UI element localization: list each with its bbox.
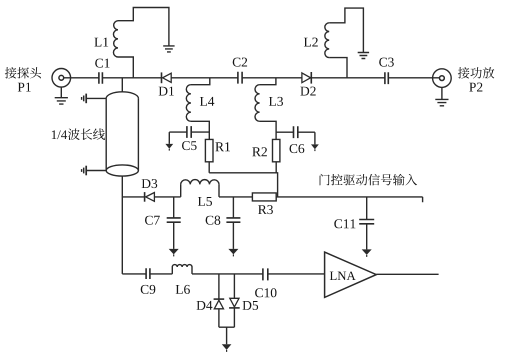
capacitor C6 [294,126,298,138]
label R2 [252,147,267,156]
op-amp LNA [325,252,377,297]
wire L5 to R3 [219,196,252,198]
ground (C6) [311,144,319,151]
wire stub to bottom rail [121,176,123,274]
label R3 [258,205,273,214]
label C5 [182,141,197,150]
label D5 [243,301,259,310]
ground (L2) [358,53,369,59]
diode D2 [302,72,311,84]
capacitor C5 [187,126,191,138]
wire C5 to ground [169,132,187,144]
resistor R2 [273,139,280,161]
ground (stub bottom) [82,166,107,176]
ground (D4 D5) [222,344,232,352]
wire bus R1-R2-gate [209,173,277,197]
label D1 [159,87,174,96]
quarter-wave line (coax stub) [106,92,138,176]
diode D5 [229,274,240,327]
wire stub node to D3 [122,196,144,198]
label L2 [304,38,318,47]
label C6 [290,144,305,153]
label 门控驱动信号输入 [320,174,418,186]
wire gate line [276,197,422,202]
wire R2 to bus [275,162,277,173]
label C2 [233,58,247,67]
wire C9 to L6 [150,273,172,275]
diode D4 [214,274,225,327]
label D2 [300,87,315,96]
label D4 [197,301,213,310]
label 1/4波长线 [52,128,105,140]
ground (C5) [165,144,173,151]
wire D3 to L5 [154,196,180,198]
label L4 [200,97,214,106]
label C10 [255,288,276,297]
ground (L1) [163,46,174,52]
ground (stub top) [82,94,107,104]
label L6 [176,285,190,294]
diode D1 [162,72,172,83]
label P1 [18,83,31,92]
capacitor C3 [385,72,388,84]
label 接功放 [458,67,495,79]
capacitor C1 [99,72,103,84]
wire L3 node to C6 [276,131,293,133]
wire C10 to LNA [268,273,325,275]
wire C2 to D2 [242,77,302,79]
inductor L4 [186,78,209,140]
label C11 [334,219,355,228]
label R1 [215,142,230,151]
wire C6 to ground [298,132,315,144]
capacitor C8 [226,197,240,249]
wire R1 to bus [208,162,210,173]
label P2 [469,83,482,92]
label L3 [269,97,283,106]
label C9 [141,285,156,294]
label D3 [142,179,158,188]
resistor R3 [252,193,276,201]
capacitor C2 [238,72,242,84]
wire P1 to C1 [64,77,99,79]
ground (C8) [228,249,238,257]
ground (C7) [169,249,179,257]
wire L6 to C10 [192,273,263,275]
inductor L3 [255,78,276,140]
label 接探头 [5,67,41,79]
capacitor C10 [263,268,268,280]
diode D3 [145,192,155,202]
label C3 [379,58,394,67]
wire D1 to C2 [171,77,238,79]
wire D4-D5 join [219,327,235,344]
ground (C11) [362,249,372,257]
inductor L1 [113,8,168,78]
wire LNA output [376,273,438,275]
inductor L5 [181,180,219,197]
label LNA [330,272,356,280]
wire D2 to C3 [311,77,385,79]
wire bottom rail to C9 [122,273,146,275]
capacitor C9 [146,268,150,279]
label C7 [145,216,160,225]
inductor L6 [172,265,192,274]
label C1 [95,59,109,68]
resistor R1 [205,139,213,161]
capacitor C11 [359,197,374,250]
ground (P1) [55,87,68,104]
label L1 [94,38,108,47]
capacitor C7 [167,197,181,249]
inductor L2 [325,8,364,78]
connector P1 [52,68,71,87]
ground (P2) [435,87,448,105]
wire C3 to P2 [388,77,439,79]
label L5 [198,197,212,206]
connector P2 [433,69,452,88]
wire rail to quarter-wave line [121,78,123,92]
wire L4 node to C5 [191,131,209,133]
label C8 [206,216,221,225]
wire C1 to D1 [102,77,161,79]
